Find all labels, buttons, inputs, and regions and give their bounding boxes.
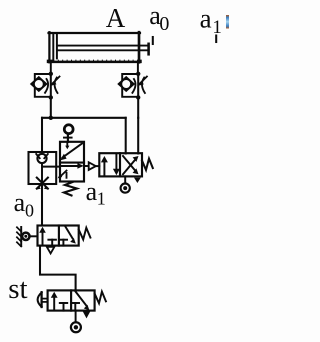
svg-text:a: a: [14, 188, 26, 217]
svg-text:1: 1: [212, 17, 222, 38]
svg-text:a: a: [200, 4, 212, 34]
svg-text:A: A: [106, 3, 126, 33]
svg-text:st: st: [8, 273, 27, 305]
svg-text:1: 1: [97, 189, 106, 209]
svg-text:0: 0: [25, 201, 34, 221]
svg-text:a: a: [86, 177, 98, 206]
svg-text:0: 0: [159, 13, 169, 35]
